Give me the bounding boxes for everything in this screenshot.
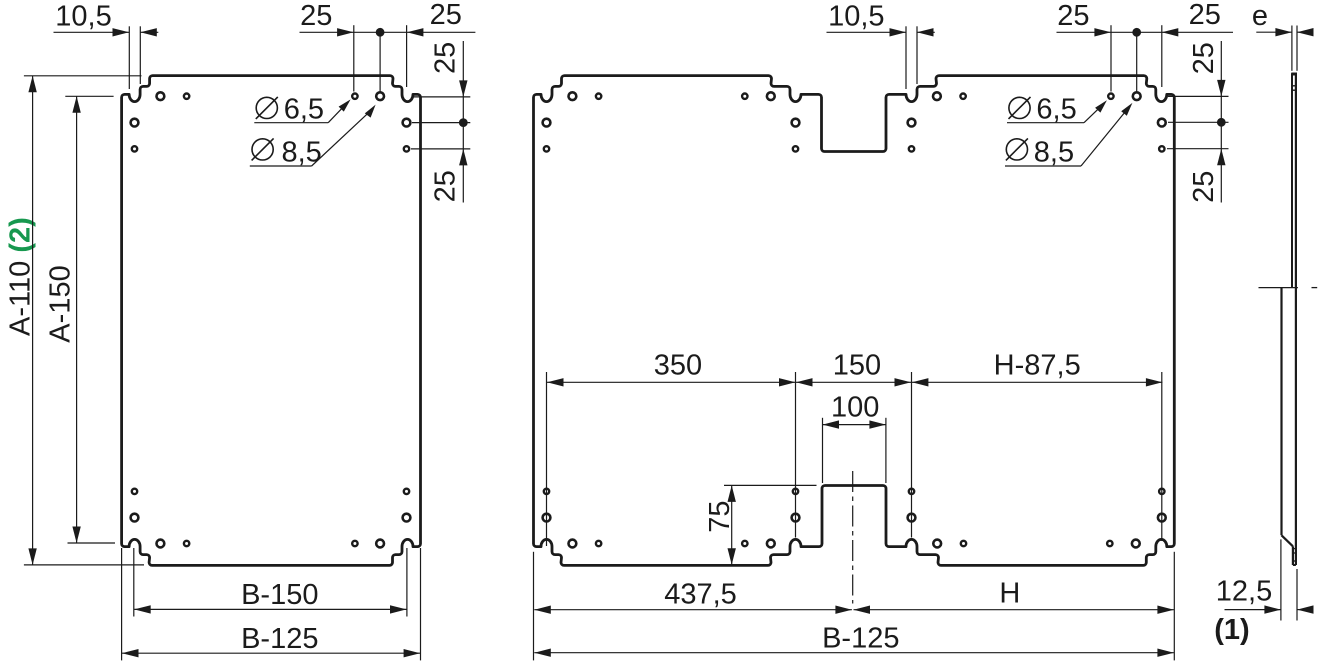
svg-text:A-110 (2): A-110 (2): [4, 217, 36, 336]
left plate hole 6.5mm #10: [184, 541, 189, 546]
svg-text:6,5: 6,5: [1036, 94, 1076, 126]
svg-text:100: 100: [831, 392, 879, 424]
middle plate hole 6.5mm #13: [1108, 94, 1113, 99]
left plate hole 6.5mm #8: [404, 146, 409, 151]
middle plate hole 6.5mm #29: [1107, 541, 1112, 546]
left plate hole 6.5mm #5: [352, 94, 357, 99]
svg-text:10,5: 10,5: [828, 1, 884, 33]
svg-text:(1): (1): [1214, 614, 1249, 646]
hole diameter label 8,5: [252, 139, 273, 160]
side view: plate cross-section: [1291, 73, 1297, 76]
svg-text:350: 350: [654, 350, 702, 382]
middle plate hole 8.5mm #17: [569, 540, 577, 548]
middle plate hole 8.5mm #30: [1132, 540, 1140, 548]
hole diameter label 6,5: [256, 97, 277, 118]
middle plate hole 6.5mm #4: [544, 146, 549, 151]
centreline of middle plate: [852, 471, 854, 604]
middle plate hole 6.5mm #16: [1159, 146, 1164, 151]
middle plate hole 8.5mm #11: [933, 92, 941, 100]
reference line between positions: [1259, 287, 1298, 289]
left plate hole 6.5mm #16: [404, 489, 409, 494]
hole diameter label 6,5 middle: [1009, 97, 1030, 118]
svg-text:150: 150: [833, 350, 881, 382]
left plate hole 6.5mm #2: [184, 94, 189, 99]
svg-text:25: 25: [1188, 42, 1220, 74]
left plate hole 8.5mm #11: [131, 514, 139, 522]
svg-text:25: 25: [1057, 0, 1089, 32]
left plate hole 8.5mm #3: [131, 119, 139, 127]
left plate hole 8.5mm #14: [376, 540, 384, 548]
middle plate hole 8.5mm #19: [543, 514, 551, 522]
middle plate hole 8.5mm #7: [792, 119, 800, 127]
svg-text:25: 25: [1188, 171, 1220, 203]
offset position face and folded foot: [1280, 288, 1282, 536]
left plate hole 6.5mm #4: [132, 146, 137, 151]
left plate hole 8.5mm #9: [157, 540, 165, 548]
middle plate hole 6.5mm #26: [909, 489, 914, 494]
middle plate hole 8.5mm #14: [1133, 92, 1141, 100]
middle plate hole 6.5mm #21: [742, 541, 747, 546]
svg-text:25: 25: [1189, 0, 1221, 31]
svg-text:8,5: 8,5: [282, 136, 322, 168]
middle plate hole 8.5mm #1: [569, 92, 577, 100]
middle plate hole 6.5mm #12: [960, 94, 965, 99]
middle plate hole 8.5mm #6: [767, 92, 775, 100]
svg-text:25: 25: [300, 0, 332, 32]
svg-text:B-125: B-125: [241, 623, 318, 655]
left plate hole 8.5mm #1: [157, 92, 165, 100]
svg-text:25: 25: [430, 42, 462, 74]
middle plate hole 8.5mm #22: [767, 540, 775, 548]
middle plate hole 8.5mm #23: [792, 514, 800, 522]
middle plate hole 6.5mm #24: [793, 489, 798, 494]
svg-text:12,5: 12,5: [1216, 576, 1272, 608]
svg-text:B-150: B-150: [241, 579, 318, 611]
left plate hole 8.5mm #7: [403, 119, 411, 127]
middle plate hole 6.5mm #28: [961, 541, 966, 546]
middle plate hole 6.5mm #2: [596, 94, 601, 99]
svg-text:25: 25: [430, 0, 462, 31]
left plate hole 6.5mm #12: [132, 489, 137, 494]
svg-text:8,5: 8,5: [1034, 136, 1074, 168]
left mounting plate outline (variant 2): [122, 76, 421, 566]
svg-text:25: 25: [430, 170, 462, 202]
middle mounting plate outline (variant 1, double door): [534, 76, 1175, 566]
middle plate hole 6.5mm #18: [596, 541, 601, 546]
svg-text:B-125: B-125: [822, 623, 899, 655]
left plate hole 8.5mm #6: [376, 92, 384, 100]
middle plate hole 8.5mm #31: [1158, 514, 1166, 522]
svg-text:437,5: 437,5: [664, 579, 737, 611]
svg-text:A-150: A-150: [45, 265, 77, 342]
svg-text:6,5: 6,5: [284, 94, 324, 126]
middle plate hole 8.5mm #3: [543, 119, 551, 127]
middle plate hole 8.5mm #25: [908, 514, 916, 522]
middle plate hole 6.5mm #20: [544, 489, 549, 494]
middle plate hole 6.5mm #8: [793, 146, 798, 151]
middle plate hole 6.5mm #10: [909, 146, 914, 151]
svg-text:e: e: [1252, 0, 1268, 32]
middle plate hole 8.5mm #9: [908, 119, 916, 127]
middle plate hole 6.5mm #32: [1159, 489, 1164, 494]
left plate hole 6.5mm #13: [352, 541, 357, 546]
svg-text:10,5: 10,5: [55, 1, 111, 33]
middle plate hole 8.5mm #27: [933, 540, 941, 548]
hole diameter label 8,5 middle: [1006, 139, 1027, 160]
middle plate hole 6.5mm #5: [742, 94, 747, 99]
svg-text:H: H: [999, 578, 1020, 610]
svg-text:H-87,5: H-87,5: [994, 350, 1081, 382]
middle plate hole 8.5mm #15: [1158, 119, 1166, 127]
left plate hole 8.5mm #15: [403, 514, 411, 522]
